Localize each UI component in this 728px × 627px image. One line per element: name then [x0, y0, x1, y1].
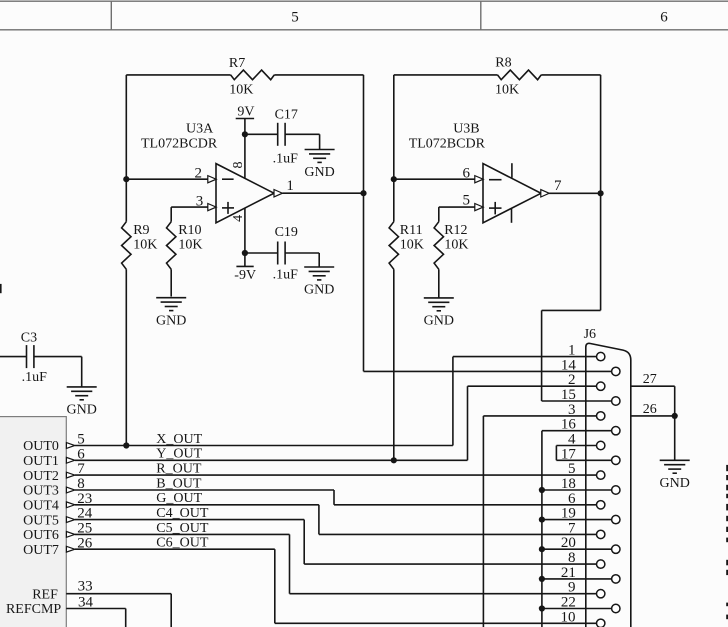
node junction ground bus to pin19	[539, 517, 545, 523]
node junction ground bus to pin20	[539, 546, 545, 552]
J6 pin 16 circle	[612, 427, 620, 435]
wire J6 pin20 from ground bus	[542, 548, 612, 550]
pin arrow OUT6	[66, 532, 74, 538]
wire J6 pin26	[631, 415, 675, 417]
border: zone tick left	[110, 1, 112, 30]
J6 pin 7 circle	[597, 530, 605, 538]
resistor R9	[122, 222, 131, 270]
J6 pin 17 circle	[612, 456, 620, 464]
svg-text:GND: GND	[67, 403, 97, 418]
svg-text:GND: GND	[424, 314, 454, 329]
svg-text:10K: 10K	[133, 237, 157, 252]
wire R10 bottom segment	[170, 269, 172, 296]
svg-text:4: 4	[231, 215, 246, 222]
wire G_OUT drop	[318, 505, 320, 535]
svg-text:R12: R12	[444, 223, 467, 238]
pin arrow U3A pin 2	[208, 176, 216, 183]
svg-text:26: 26	[643, 402, 657, 417]
wire R8 top left segment	[394, 74, 498, 76]
svg-text:REFCMP: REFCMP	[6, 602, 61, 617]
node junction -9V to C19	[242, 250, 248, 256]
wire J6 pin6	[334, 504, 597, 506]
wire U3A pin2 input	[126, 178, 208, 180]
svg-text:6: 6	[463, 165, 471, 181]
J6 pin 1 circle	[597, 352, 605, 360]
svg-text:TL072BCDR: TL072BCDR	[141, 137, 218, 152]
node junction ground bus to pin21	[539, 576, 545, 582]
wire J6 pin15	[542, 400, 612, 402]
J6 pin 22 circle	[612, 604, 620, 612]
wire U3B output	[549, 192, 600, 194]
svg-text:22: 22	[561, 595, 576, 611]
wire C3 right plate to gnd corner	[34, 356, 82, 358]
wire C5_OUT horizontal	[75, 533, 290, 535]
svg-text:REF: REF	[32, 587, 58, 602]
svg-text:2: 2	[568, 372, 576, 388]
wire C17 right plate to gnd corner	[285, 133, 320, 135]
wire R8 left leg upper	[393, 75, 395, 179]
ground symbol for C3	[67, 386, 97, 388]
wire R7 top left segment	[126, 74, 230, 76]
J6 pin 3 circle	[597, 412, 605, 420]
svg-text:3: 3	[568, 402, 576, 418]
svg-text:8: 8	[231, 162, 246, 169]
svg-text:4: 4	[568, 432, 576, 448]
svg-text:C19: C19	[275, 225, 298, 240]
pin arrow OUT2	[66, 472, 74, 478]
wire J6 pin2	[468, 385, 597, 387]
wire joining pins 4 and 17	[555, 446, 557, 461]
wire G_OUT horizontal	[75, 504, 319, 506]
J6 pin 5 circle	[597, 471, 605, 479]
wire J6 pin1	[453, 356, 597, 358]
svg-text:R11: R11	[400, 223, 423, 238]
wire C17 gnd drop	[319, 134, 321, 149]
J6 pin 15 circle	[612, 397, 620, 405]
wire U3A output to R7 leg	[282, 192, 363, 194]
capacitor C17	[277, 123, 279, 146]
svg-text:.1uF: .1uF	[273, 151, 299, 166]
pin arrow OUT1	[66, 457, 74, 463]
wire R7 top right segment	[274, 74, 363, 76]
wire Y_OUT riser to J6 pin2	[467, 386, 469, 460]
J6 pin 18 circle	[612, 486, 620, 494]
resistor R11	[389, 222, 398, 270]
svg-text:10K: 10K	[400, 237, 424, 252]
svg-text:OUT3: OUT3	[23, 484, 59, 499]
wire J6 pin18 from ground bus	[542, 489, 612, 491]
svg-text:OUT0: OUT0	[23, 439, 59, 454]
J6 pin 20 circle	[612, 545, 620, 553]
wire R_OUT to J6 pin5	[75, 474, 597, 476]
U3A plus sign	[222, 207, 234, 209]
J6 pin 9 circle	[597, 590, 605, 598]
svg-text:C3: C3	[21, 331, 37, 346]
svg-text:20: 20	[561, 535, 576, 551]
ground symbol for C19	[304, 266, 334, 268]
wire to connector ground	[674, 416, 676, 460]
svg-text:Y_OUT: Y_OUT	[156, 447, 202, 462]
capacitor C3	[26, 345, 28, 368]
wire B_OUT horizontal	[75, 489, 334, 491]
U3A minus sign	[222, 178, 234, 180]
IC U? DAC body (partial)	[0, 417, 66, 627]
border: lower frame line	[0, 29, 728, 31]
svg-text:10: 10	[561, 609, 576, 625]
pin arrow U3A pin 3	[208, 204, 216, 211]
svg-text:7: 7	[568, 520, 576, 536]
svg-text:8: 8	[568, 550, 576, 566]
U3A output arrow pin 1	[274, 190, 282, 197]
svg-text:18: 18	[561, 476, 576, 492]
svg-text:19: 19	[561, 506, 576, 522]
wire 9V to C17 left plate	[245, 133, 278, 135]
pin arrow OUT3	[66, 487, 74, 493]
ground symbol for C17	[305, 149, 335, 151]
node junction ground bus to pin18	[539, 487, 545, 493]
node junction ground bus to pin22	[539, 605, 545, 611]
wire ground bus vertical	[541, 431, 543, 627]
wire J6 pin8	[304, 563, 596, 565]
wire C19 gnd drop	[318, 253, 320, 267]
svg-text:33: 33	[78, 579, 93, 595]
wire R7 left leg upper	[125, 75, 127, 179]
resistor R7	[231, 70, 275, 80]
svg-text:R_OUT: R_OUT	[156, 462, 202, 477]
svg-text:G_OUT: G_OUT	[156, 491, 202, 506]
op-amp U3B triangle	[483, 164, 541, 223]
op-amp U3A triangle	[216, 164, 274, 223]
wire -9V to C19 left plate	[245, 252, 278, 254]
svg-text:3: 3	[196, 193, 204, 209]
wire J6 pin19 from ground bus	[542, 519, 612, 521]
wire R12 top segment	[438, 207, 440, 222]
border: top frame line	[0, 0, 728, 2]
svg-text:X_OUT: X_OUT	[156, 432, 202, 447]
wire R12 bottom segment	[438, 269, 440, 298]
svg-text:16: 16	[561, 417, 577, 433]
svg-text:14: 14	[561, 357, 577, 373]
svg-text:10K: 10K	[178, 237, 202, 252]
J6 pin 19 circle	[612, 515, 620, 523]
svg-text:.1uF: .1uF	[273, 267, 299, 282]
node junction 9V to C17	[242, 131, 248, 137]
resistor R10	[167, 222, 176, 270]
svg-text:B_OUT: B_OUT	[156, 476, 202, 491]
wire REF horizontal	[66, 593, 171, 595]
svg-text:10K: 10K	[444, 237, 468, 252]
power symbol 9V bar	[236, 118, 254, 120]
wire R8 right leg down	[600, 75, 602, 311]
wire C5_OUT drop	[289, 534, 291, 593]
wire U3B pin5 input	[439, 206, 475, 208]
wire J6 pin3	[483, 415, 596, 417]
wire J6 pin4	[556, 445, 596, 447]
wire J6 pin10	[275, 622, 597, 624]
svg-text:9: 9	[568, 580, 576, 596]
svg-text:OUT1: OUT1	[23, 454, 59, 469]
wire U3B output jog horizontal	[542, 309, 601, 311]
node junction R11 to Y_OUT wire	[391, 457, 397, 463]
node junction R9 to X_OUT wire	[123, 442, 129, 448]
wire J6 pin17	[556, 459, 611, 461]
cut-off text fragments at right edge	[726, 465, 728, 619]
svg-text:10K: 10K	[229, 83, 253, 98]
wire C3 gnd drop	[81, 357, 83, 387]
J6 pin 2 circle	[597, 382, 605, 390]
wire into C3 from left edge	[0, 356, 27, 358]
U3B plus sign	[489, 207, 502, 209]
svg-text:GND: GND	[304, 165, 334, 180]
wire U3A pin 8 vertical	[244, 119, 246, 179]
svg-text:5: 5	[291, 9, 299, 25]
svg-text:5: 5	[568, 461, 576, 477]
U3B top power stub	[511, 163, 513, 178]
svg-text:J6: J6	[584, 327, 596, 342]
svg-text:21: 21	[561, 565, 576, 581]
J6 pin 8 circle	[597, 560, 605, 568]
svg-text:C4_OUT: C4_OUT	[156, 506, 209, 521]
wire J6 pin16 from ground bus	[542, 430, 612, 432]
wire J6 pin7	[319, 533, 597, 535]
J6 pin 10 circle	[597, 619, 605, 627]
svg-text:5: 5	[463, 192, 471, 208]
svg-text:R7: R7	[229, 56, 245, 71]
svg-text:OUT5: OUT5	[23, 513, 59, 528]
wire B_OUT drop	[333, 490, 335, 505]
pin arrow OUT0	[66, 443, 74, 449]
ground symbol below R10	[156, 297, 186, 299]
svg-text:C6_OUT: C6_OUT	[156, 536, 209, 551]
svg-text:OUT2: OUT2	[23, 469, 59, 484]
svg-text:1: 1	[568, 343, 576, 359]
node junction U3B output	[598, 190, 604, 196]
svg-text:15: 15	[561, 387, 576, 403]
svg-text:-9V: -9V	[234, 268, 256, 283]
wire R8 top right segment	[541, 74, 600, 76]
connector J6 body outline	[586, 343, 631, 627]
wire U3B pin6 input	[394, 178, 475, 180]
wire R10 top segment	[170, 207, 172, 222]
svg-text:1: 1	[286, 178, 294, 194]
node junction U3A inverting input	[123, 176, 129, 182]
wire X_OUT horizontal	[75, 445, 453, 447]
wire J6 pin27	[631, 385, 675, 387]
J6 pin 21 circle	[612, 575, 620, 583]
wire U3B output jog down to pin15 row	[541, 310, 543, 401]
wire R11 upper segment	[393, 179, 395, 222]
svg-text:U3B: U3B	[453, 121, 479, 136]
node junction pins 26-27	[672, 413, 678, 419]
svg-text:OUT7: OUT7	[23, 543, 59, 558]
svg-text:R9: R9	[133, 223, 149, 238]
svg-text:6: 6	[660, 9, 668, 25]
pin arrow OUT4	[66, 502, 74, 508]
wire C6_OUT horizontal	[75, 548, 275, 550]
U3B bottom power stub	[511, 208, 513, 222]
svg-text:17: 17	[561, 446, 577, 462]
pin arrow U3B pin 6	[475, 176, 483, 183]
resistor R8	[498, 70, 542, 80]
capacitor C19	[277, 242, 279, 265]
wire pin27 drop	[674, 386, 676, 416]
wire REFCMP drop off bottom	[125, 609, 127, 627]
svg-text:OUT6: OUT6	[23, 528, 59, 543]
svg-text:OUT4: OUT4	[23, 499, 59, 514]
ground symbol below R12	[424, 297, 454, 299]
wire X_OUT riser to J6 pin1	[452, 357, 454, 446]
wire C19 right plate to gnd corner	[285, 252, 319, 254]
U3B output arrow pin 7	[541, 190, 549, 197]
svg-text:7: 7	[554, 178, 562, 194]
wire R7 right leg down	[363, 75, 365, 372]
wire U3A pin 4 vertical	[244, 208, 246, 267]
wire C6_OUT drop	[274, 549, 276, 623]
wire J6 pin9	[290, 593, 597, 595]
wire R11 lower segment to Y_OUT	[393, 269, 395, 460]
wire J6 pin22 from ground bus	[542, 608, 612, 610]
wire REFCMP horizontal	[66, 608, 126, 610]
power symbol -9V bar	[236, 265, 253, 267]
wire U3A pin3 input	[171, 206, 208, 208]
pin arrow OUT5	[66, 517, 74, 523]
U3B minus sign	[489, 179, 502, 181]
cut-off label fragment at left edge	[0, 284, 2, 293]
J6 pin 6 circle	[597, 501, 605, 509]
ground symbol for J6	[660, 459, 690, 461]
svg-text:R8: R8	[495, 56, 511, 71]
wire REF drop off bottom	[170, 594, 172, 627]
wire R9 lower segment to X_OUT	[125, 269, 127, 445]
svg-text:27: 27	[643, 372, 657, 387]
svg-text:GND: GND	[304, 283, 334, 298]
svg-text:GND: GND	[660, 476, 690, 491]
svg-text:U3A: U3A	[186, 121, 214, 136]
pin arrow OUT7	[66, 546, 74, 552]
wire J6 pin3 tail off bottom	[482, 416, 484, 627]
node junction U3A output	[360, 190, 366, 196]
svg-text:TL072BCDR: TL072BCDR	[409, 137, 486, 152]
node junction U3B inverting input	[391, 176, 397, 182]
J6 pin 14 circle	[612, 367, 620, 375]
svg-text:10K: 10K	[495, 83, 519, 98]
svg-text:2: 2	[195, 165, 203, 181]
svg-text:R10: R10	[178, 223, 201, 238]
svg-text:6: 6	[568, 491, 576, 507]
wire C4_OUT drop	[303, 520, 305, 565]
wire R9 upper segment	[125, 179, 127, 222]
svg-text:GND: GND	[156, 313, 186, 328]
wire Y_OUT horizontal	[75, 459, 468, 461]
wire C4_OUT horizontal	[75, 519, 304, 521]
svg-text:C17: C17	[275, 108, 298, 123]
border: zone tick right	[480, 1, 482, 30]
wire J6 pin21 from ground bus	[542, 578, 612, 580]
svg-text:.1uF: .1uF	[22, 370, 47, 385]
pin arrow U3B pin 5	[475, 204, 483, 211]
svg-text:C5_OUT: C5_OUT	[156, 521, 209, 536]
resistor R12	[434, 222, 443, 270]
svg-text:9V: 9V	[237, 104, 254, 119]
J6 pin 4 circle	[597, 441, 605, 449]
wire J6 pin14 from R7 leg	[364, 370, 612, 372]
